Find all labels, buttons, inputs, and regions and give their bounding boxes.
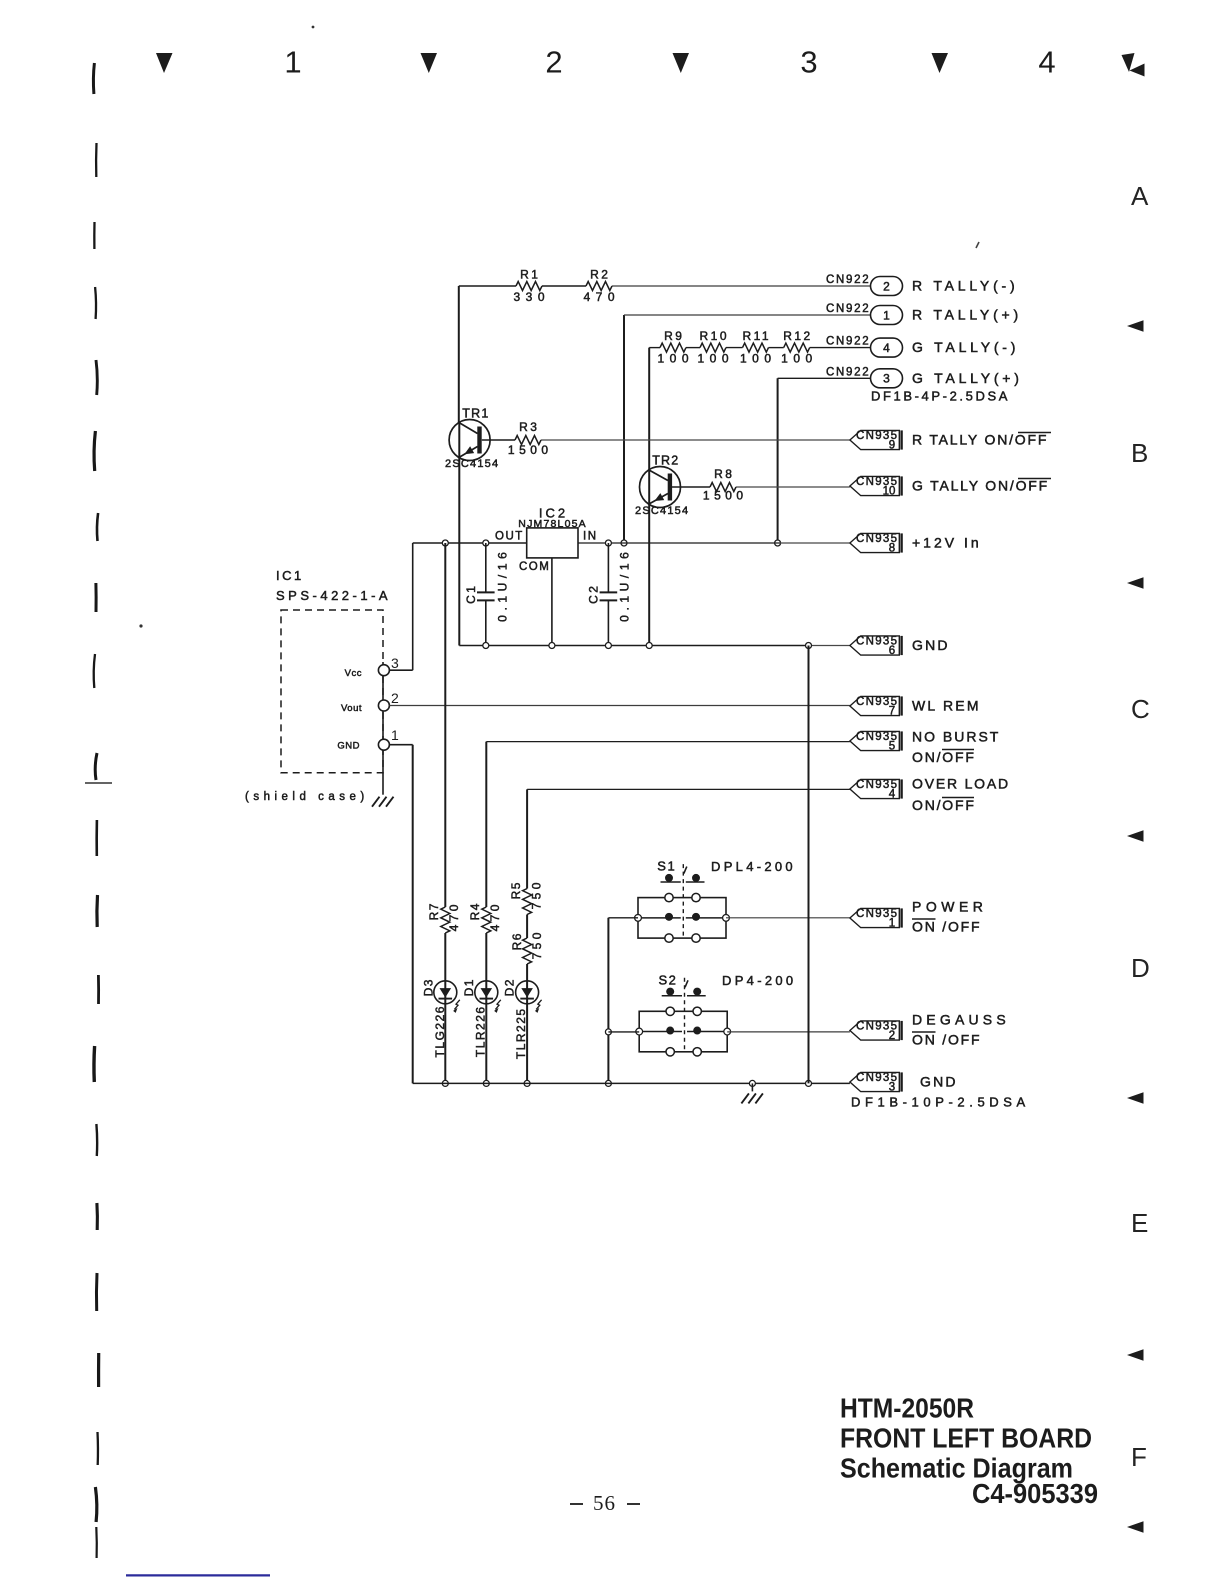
svg-text:750: 750 <box>530 929 544 959</box>
ruler number 2 <box>545 45 562 80</box>
svg-text:1: 1 <box>889 917 895 929</box>
svg-text:470: 470 <box>488 901 502 931</box>
wire net bottom GND rail <box>413 1080 850 1086</box>
svg-text:IC1: IC1 <box>276 568 304 583</box>
zone label D <box>1131 953 1150 983</box>
bottom blue rule <box>126 1574 270 1576</box>
svg-text:OUT: OUT <box>495 531 524 543</box>
top ruler triangle 1 <box>156 53 173 73</box>
IC1 SPS-422-1-A shield case <box>245 568 399 803</box>
margin arrow 6 <box>1127 1521 1144 1533</box>
connector CN935 pin 7 WL REM <box>850 696 981 717</box>
wire net Vout WL REM <box>389 705 850 707</box>
top ruler triangle 4 <box>932 53 949 73</box>
wire net G TALLY ON/OFF <box>649 487 850 646</box>
svg-text:R TALLY ON/OFF: R TALLY ON/OFF <box>912 432 1048 448</box>
svg-text:Vcc: Vcc <box>345 668 362 679</box>
svg-text:1500: 1500 <box>703 489 748 503</box>
svg-text:CN922: CN922 <box>826 366 870 378</box>
svg-text:+12V In: +12V In <box>912 535 982 551</box>
resistor R6 750 <box>510 929 544 964</box>
ruler number 1 <box>284 45 301 80</box>
svg-text:TR1: TR1 <box>462 407 489 421</box>
wire net R TALLY(-) <box>459 286 871 423</box>
svg-text:100: 100 <box>657 352 694 366</box>
svg-text:R12: R12 <box>783 329 813 343</box>
svg-text:A: A <box>1131 181 1149 211</box>
svg-text:R TALLY(-): R TALLY(-) <box>912 278 1018 294</box>
svg-text:R3: R3 <box>519 420 539 434</box>
title block <box>840 1393 1098 1510</box>
connector CN935 pin 9 <box>850 430 1051 451</box>
connector CN935 pin 6 GND <box>850 636 950 657</box>
wire net OVER LOAD <box>524 789 850 1086</box>
svg-text:E: E <box>1131 1208 1148 1238</box>
svg-text:2: 2 <box>889 1030 895 1042</box>
wire net NO BURST <box>483 742 850 1087</box>
svg-text:HTM-2050R: HTM-2050R <box>840 1393 974 1424</box>
wire GND link vertical <box>808 646 810 1084</box>
svg-text:TLR225: TLR225 <box>514 1007 528 1059</box>
svg-text:4: 4 <box>883 341 890 355</box>
svg-text:9: 9 <box>889 439 895 451</box>
svg-text:8: 8 <box>889 542 895 554</box>
capacitor C2 0.1U/16 <box>587 543 632 646</box>
svg-text:TR2: TR2 <box>652 454 679 468</box>
svg-text:2: 2 <box>545 45 562 80</box>
page number 56 <box>570 1491 640 1515</box>
svg-text:Vout: Vout <box>341 703 362 714</box>
paper specks <box>139 26 979 628</box>
svg-text:C2: C2 <box>587 584 601 604</box>
svg-text:D: D <box>1131 953 1150 983</box>
svg-text:C: C <box>1131 694 1150 724</box>
voltage regulator IC2 NJM78L05A <box>495 506 598 646</box>
svg-text:TLR226: TLR226 <box>474 1005 488 1057</box>
svg-text:R TALLY(+): R TALLY(+) <box>912 307 1022 323</box>
top ruler triangle 3 <box>673 53 690 73</box>
ground symbol shield case <box>372 773 394 807</box>
left edge binding marks <box>85 63 112 1558</box>
svg-text:DP4-200: DP4-200 <box>722 973 796 988</box>
svg-text:100: 100 <box>740 352 777 366</box>
svg-text:10: 10 <box>883 485 896 497</box>
connector CN935 pin 8 +12V In <box>850 533 982 554</box>
svg-text:R10: R10 <box>699 329 729 343</box>
svg-text:ON/OFF: ON/OFF <box>912 749 976 765</box>
zone label B <box>1131 438 1148 468</box>
label DF1B-4P-2.5DSA <box>871 389 1010 404</box>
svg-text:(shield case): (shield case) <box>245 791 369 803</box>
svg-text:FRONT LEFT BOARD: FRONT LEFT BOARD <box>840 1423 1092 1454</box>
svg-text:WL REM: WL REM <box>912 698 981 714</box>
svg-text:4: 4 <box>1038 45 1055 80</box>
transistor TR2 2SC4154 <box>635 454 689 518</box>
svg-text:TLG226: TLG226 <box>433 1005 447 1057</box>
ruler number 3 <box>800 45 817 80</box>
svg-text:CN922: CN922 <box>826 274 870 286</box>
svg-text:3: 3 <box>391 655 399 671</box>
wire net R TALLY(+) <box>621 315 871 546</box>
svg-text:6: 6 <box>889 645 895 657</box>
svg-text:100: 100 <box>781 352 818 366</box>
svg-text:ON /OFF: ON /OFF <box>912 1032 981 1048</box>
svg-text:S1: S1 <box>657 859 676 874</box>
wire net G TALLY(+) <box>775 378 871 546</box>
resistor R12 100 <box>781 329 818 366</box>
svg-text:1: 1 <box>391 727 399 743</box>
svg-text:0.1U/16: 0.1U/16 <box>496 548 510 622</box>
svg-text:1: 1 <box>883 308 890 322</box>
resistor R10 100 <box>697 329 734 366</box>
svg-text:D2: D2 <box>503 978 517 996</box>
LED D1 TLR226 <box>462 978 501 1057</box>
ground symbol bottom rail <box>741 1083 763 1103</box>
wire net IC1 GND to bottom rail <box>389 745 412 1084</box>
wire net R TALLY ON/OFF <box>482 439 850 441</box>
svg-text:750: 750 <box>530 879 544 909</box>
svg-text:7: 7 <box>889 705 895 717</box>
label DF1B-10P-2.5DSA <box>851 1095 1030 1110</box>
resistor R4 470 <box>468 901 502 933</box>
svg-text:DPL4-200: DPL4-200 <box>711 859 796 874</box>
svg-text:B: B <box>1131 438 1148 468</box>
margin arrow 5 <box>1127 1349 1144 1361</box>
svg-text:4: 4 <box>889 788 896 800</box>
connector CN935 pin 10 <box>850 476 1051 497</box>
svg-text:DF1B-10P-2.5DSA: DF1B-10P-2.5DSA <box>851 1095 1030 1110</box>
svg-text:2SC4154: 2SC4154 <box>445 458 499 470</box>
corner registration mark <box>1122 53 1145 77</box>
svg-text:F: F <box>1131 1442 1147 1472</box>
svg-text:ON/OFF: ON/OFF <box>912 797 976 813</box>
svg-text:R6: R6 <box>510 932 524 950</box>
svg-text:1: 1 <box>284 45 301 80</box>
resistor R2 470 <box>583 268 620 305</box>
LED D3 TLG226 <box>422 978 460 1057</box>
svg-text:3: 3 <box>800 45 817 80</box>
svg-text:470: 470 <box>583 290 620 304</box>
wire net G TALLY(-) <box>649 348 870 470</box>
connector CN935 pin 5 NO BURST ON/OFF <box>850 729 1000 766</box>
resistor R5 750 <box>509 879 544 914</box>
svg-text:470: 470 <box>447 901 461 931</box>
margin arrow 3 <box>1127 830 1144 842</box>
margin arrow 2 <box>1127 577 1144 589</box>
resistor R9 100 <box>657 329 694 366</box>
zone label E <box>1131 1208 1148 1238</box>
svg-text:D1: D1 <box>462 978 476 996</box>
svg-text:OVER LOAD: OVER LOAD <box>912 776 1010 792</box>
svg-text:R8: R8 <box>714 467 734 481</box>
svg-text:56: 56 <box>593 1491 616 1515</box>
wire net GND rail <box>459 457 850 648</box>
connector CN935 pin 3 GND <box>850 1072 958 1093</box>
svg-text:GND: GND <box>912 637 950 653</box>
svg-text:DEGAUSS: DEGAUSS <box>912 1012 1010 1028</box>
svg-text:R7: R7 <box>427 902 441 920</box>
svg-text:GND: GND <box>337 741 360 752</box>
connector CN935 pin 4 OVER LOAD ON/OFF <box>850 776 1010 814</box>
svg-text:DF1B-4P-2.5DSA: DF1B-4P-2.5DSA <box>871 389 1010 404</box>
ruler number 4 <box>1038 45 1055 80</box>
resistor R8 1500 <box>703 467 748 503</box>
svg-text:COM: COM <box>519 561 550 573</box>
connector CN922 pin 1 <box>826 303 1022 325</box>
svg-text:R11: R11 <box>742 329 771 343</box>
margin arrow 4 <box>1127 1092 1144 1104</box>
wire net POWER <box>605 918 850 1087</box>
resistor R11 100 <box>740 329 777 366</box>
svg-text:2SC4154: 2SC4154 <box>635 505 689 517</box>
svg-text:POWER: POWER <box>912 899 987 915</box>
svg-text:3: 3 <box>889 1081 895 1093</box>
margin arrow 1 <box>1127 320 1144 332</box>
svg-text:GND: GND <box>920 1074 958 1090</box>
connector CN935 pin 2 DEGAUSS ON/OFF <box>850 1012 1010 1048</box>
connector CN922 pin 3 <box>826 366 1023 388</box>
svg-text:NO BURST: NO BURST <box>912 729 1000 745</box>
svg-text:CN922: CN922 <box>826 336 870 348</box>
capacitor C1 0.1U/16 <box>464 543 510 646</box>
zone label F <box>1131 1442 1147 1472</box>
resistor R3 1500 <box>508 420 553 457</box>
svg-text:R2: R2 <box>590 268 610 282</box>
connector CN935 pin 1 POWER ON/OFF <box>850 899 987 935</box>
svg-text:D3: D3 <box>422 978 436 996</box>
connector CN922 pin 4 <box>826 336 1019 358</box>
svg-text:G TALLY ON/OFF: G TALLY ON/OFF <box>912 478 1049 494</box>
svg-text:R9: R9 <box>664 329 684 343</box>
svg-text:S2: S2 <box>658 972 677 987</box>
top ruler triangle 2 <box>421 53 438 73</box>
svg-text:R4: R4 <box>468 902 482 920</box>
resistor R1 330 <box>513 268 550 305</box>
switch S2 DP4-200 <box>636 972 797 1056</box>
svg-text:C1: C1 <box>464 584 478 604</box>
svg-text:C4-905339: C4-905339 <box>972 1478 1098 1509</box>
svg-text:G TALLY(+): G TALLY(+) <box>912 370 1023 386</box>
zone label C <box>1131 694 1150 724</box>
svg-text:5: 5 <box>889 740 895 752</box>
svg-text:R5: R5 <box>509 881 523 899</box>
zone label A <box>1131 181 1149 211</box>
svg-text:330: 330 <box>513 290 550 304</box>
svg-text:0.1U/16: 0.1U/16 <box>618 548 632 622</box>
svg-text:IN: IN <box>583 531 598 543</box>
svg-text:100: 100 <box>697 352 734 366</box>
transistor TR1 2SC4154 <box>445 407 499 471</box>
svg-text:2: 2 <box>883 279 890 293</box>
resistor R7 470 <box>427 901 461 933</box>
svg-text:NJM78L05A: NJM78L05A <box>518 518 587 530</box>
svg-text:G TALLY(-): G TALLY(-) <box>912 339 1019 355</box>
svg-text:2: 2 <box>391 690 399 706</box>
LED D2 TLR225 <box>503 978 542 1059</box>
svg-text:1500: 1500 <box>508 443 553 457</box>
svg-text:SPS-422-1-A: SPS-422-1-A <box>276 588 391 603</box>
connector CN922 pin 2 <box>826 274 1018 296</box>
svg-text:R1: R1 <box>520 268 540 282</box>
wire net LED supply branch <box>442 543 448 1086</box>
svg-text:CN922: CN922 <box>826 303 870 315</box>
svg-text:ON /OFF: ON /OFF <box>912 919 981 935</box>
wire net +5V OUT <box>389 540 526 670</box>
switch S1 DPL4-200 <box>635 859 796 943</box>
wire net +12V IN <box>578 540 850 546</box>
wire net DEGAUSS <box>608 1031 850 1033</box>
svg-text:3: 3 <box>883 372 890 386</box>
